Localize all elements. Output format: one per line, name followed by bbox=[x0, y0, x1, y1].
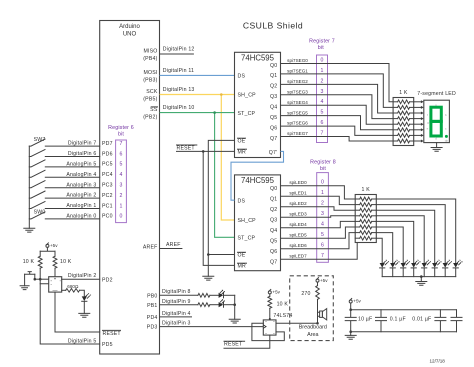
svg-text:Q1: Q1 bbox=[270, 73, 277, 79]
svg-text:PC3: PC3 bbox=[102, 183, 113, 189]
svg-text:AREF: AREF bbox=[143, 244, 158, 250]
wire +5v to R8 bbox=[317, 282, 319, 286]
svg-text:dp: dp bbox=[445, 138, 449, 142]
svg-text:4: 4 bbox=[119, 172, 122, 178]
svg-text:1: 1 bbox=[119, 203, 122, 209]
junction node A resistor bbox=[39, 278, 42, 281]
wire U2 OE to U3 OE and ground bbox=[208, 140, 234, 276]
svg-text:7: 7 bbox=[321, 131, 324, 137]
svg-text:PC5: PC5 bbox=[102, 162, 113, 168]
wire LED4 cathode to rail bbox=[423, 268, 425, 277]
capacitor C3 0.01uF bbox=[435, 310, 446, 332]
RP2 resistor row 7 bbox=[355, 237, 360, 239]
flip-flop U5 74LS74 body bbox=[263, 320, 276, 335]
svg-text:ST_CP: ST_CP bbox=[238, 111, 256, 117]
RP1 resistor row 4 bbox=[393, 123, 398, 125]
wire node A to U6 pin 2 bbox=[40, 279, 49, 284]
ground switch bank bbox=[24, 228, 35, 232]
svg-text:7: 7 bbox=[321, 253, 324, 259]
svg-text:0: 0 bbox=[321, 180, 324, 186]
wire RP2 row 5 to LED2 bbox=[376, 227, 403, 263]
resistor R5 10K (right) bbox=[54, 251, 56, 256]
junction OE net bbox=[207, 253, 210, 256]
svg-text:DigitalPin 11: DigitalPin 11 bbox=[163, 68, 194, 74]
wire LED common rail bbox=[382, 276, 456, 278]
switch SW5 blade bbox=[29, 160, 45, 167]
svg-text:spiLED1: spiLED1 bbox=[289, 191, 307, 196]
svg-text:Q5: Q5 bbox=[270, 115, 277, 121]
wire spi7SEG6 U2 Q6 to RP1 bbox=[281, 126, 394, 135]
capacitor C4 bbox=[451, 310, 462, 332]
wire RESET branch to U3 MR bbox=[203, 151, 234, 265]
wire U5 Qbar to D feedback loop bbox=[252, 323, 284, 340]
svg-text:10 K: 10 K bbox=[277, 301, 289, 307]
wire spi7SEG0 U2 Q0 to RP1 bbox=[281, 64, 394, 102]
resistor pack RP1 1K body bbox=[393, 98, 414, 146]
svg-text:DigitalPin 2: DigitalPin 2 bbox=[68, 273, 97, 279]
wire spiLED1 U3 Q1 to RP2 bbox=[281, 196, 356, 204]
svg-text:SH_CP: SH_CP bbox=[238, 93, 257, 99]
ground decoupling bbox=[345, 335, 356, 339]
wire LED7 cathode to rail bbox=[455, 268, 457, 277]
capacitor C1 10uF bbox=[345, 310, 356, 332]
svg-text:6: 6 bbox=[321, 120, 324, 126]
wire DigitalPin 3 PD3 to U5 clock bbox=[160, 326, 264, 328]
junction ground rail bbox=[349, 330, 352, 333]
wire DigitalPin 7 to switch bbox=[45, 145, 99, 147]
RP2 resistor row 5 bbox=[355, 226, 360, 228]
wire LED5 cathode to rail bbox=[434, 268, 436, 277]
svg-text:Breadboard: Breadboard bbox=[299, 325, 327, 331]
power +5v (pull-ups) bbox=[46, 244, 49, 247]
svg-text:spi7SEG7: spi7SEG7 bbox=[287, 131, 308, 136]
svg-text:PD2: PD2 bbox=[102, 277, 113, 283]
svg-text:bit: bit bbox=[118, 132, 124, 138]
wire RP1 row 3 to 7-seg pin bbox=[414, 118, 421, 120]
svg-text:Q7: Q7 bbox=[270, 136, 277, 142]
wire RP2 row 7 to LED0 bbox=[376, 238, 382, 263]
wire RP1 row 2 to 7-seg pin bbox=[414, 112, 421, 114]
svg-text:Q7: Q7 bbox=[270, 260, 277, 266]
svg-text:PD7: PD7 bbox=[102, 141, 113, 147]
svg-text:Q4: Q4 bbox=[270, 228, 277, 234]
svg-text:PC2: PC2 bbox=[102, 193, 113, 199]
svg-text:bit: bit bbox=[318, 45, 324, 51]
svg-text:(PB5): (PB5) bbox=[143, 97, 157, 103]
shift register U2 74HC595 body bbox=[235, 52, 281, 157]
svg-text:PC1: PC1 bbox=[102, 203, 113, 209]
svg-text:Q3: Q3 bbox=[270, 94, 277, 100]
wire DigitalPin 11 (blue) MOSI to U2 DS bbox=[160, 74, 235, 76]
wire rail to ground bbox=[350, 332, 352, 336]
wire RP1 row 0 to 7-seg pin bbox=[414, 101, 421, 103]
wire spiLED7 U3 Q7 to RP2 bbox=[281, 243, 358, 260]
svg-text:MR: MR bbox=[238, 150, 247, 156]
svg-text:Q6: Q6 bbox=[270, 249, 277, 255]
wire U6 pin to resistor R6 bbox=[62, 289, 66, 291]
wire rail to ground bbox=[420, 277, 422, 282]
svg-text:spi7SEG1: spi7SEG1 bbox=[287, 69, 308, 74]
svg-text:UNO: UNO bbox=[123, 32, 137, 38]
wire 7-seg common to ground bbox=[436, 143, 438, 148]
wire RP1 row 7 to 7-seg pin bbox=[414, 140, 421, 142]
junction speaker node bbox=[316, 322, 319, 325]
wire AREF stub bbox=[160, 248, 182, 250]
svg-text:+5v: +5v bbox=[320, 278, 328, 283]
wire AnalogPin 5 to switch bbox=[45, 166, 99, 168]
wire spiLED3 U3 Q3 to RP2 bbox=[281, 216, 356, 217]
wire spi7SEG2 U2 Q2 to RP1 bbox=[281, 84, 394, 113]
svg-text:DS: DS bbox=[238, 198, 246, 204]
RP2 resistor row 0 bbox=[355, 198, 360, 200]
svg-text:Q2: Q2 bbox=[270, 207, 277, 213]
wire AnalogPin 1 to switch bbox=[45, 208, 99, 210]
debounce chip U6 body bbox=[49, 277, 62, 292]
wire R6 to LED11 bbox=[80, 290, 85, 296]
svg-text:10 µF: 10 µF bbox=[358, 316, 372, 322]
svg-text:Q6: Q6 bbox=[270, 125, 277, 131]
svg-text:Area: Area bbox=[307, 332, 318, 338]
svg-text:spi7SEG0: spi7SEG0 bbox=[287, 58, 308, 63]
svg-text:spiLED6: spiLED6 bbox=[289, 243, 307, 248]
resistor R2 (PB0) bbox=[198, 293, 210, 297]
svg-text:DigitalPin 8: DigitalPin 8 bbox=[162, 289, 191, 295]
svg-text:7: 7 bbox=[119, 141, 122, 147]
svg-text:DigitalPin 12: DigitalPin 12 bbox=[163, 46, 195, 52]
svg-text:CSULB Shield: CSULB Shield bbox=[243, 21, 303, 31]
wire spi7SEG7 U2 Q7 to RP1 bbox=[281, 137, 394, 141]
wire spiLED0 U3 Q0 to RP2 bbox=[281, 186, 356, 199]
RP2 resistor row 6 bbox=[355, 232, 360, 234]
RP1 resistor row 5 bbox=[393, 129, 398, 131]
svg-text:(PB3): (PB3) bbox=[143, 78, 157, 84]
switch SW4 blade bbox=[29, 170, 45, 177]
svg-text:SW7: SW7 bbox=[34, 137, 46, 143]
wire LED1 cathode to rail bbox=[392, 268, 394, 277]
register 6 box bbox=[116, 140, 127, 223]
wire RP1 row 6 to 7-seg pin bbox=[414, 134, 421, 136]
svg-text:PC0: PC0 bbox=[102, 214, 113, 220]
svg-text:spi7SEG6: spi7SEG6 bbox=[287, 121, 308, 126]
wire U6 output DigitalPin 2 to PD2 bbox=[62, 278, 100, 280]
svg-text:spi7SEG3: spi7SEG3 bbox=[287, 89, 308, 94]
7-segment digit segments bbox=[431, 107, 441, 121]
svg-text:Q0: Q0 bbox=[270, 63, 277, 69]
svg-text:PD5: PD5 bbox=[102, 342, 113, 348]
svg-text:1 K: 1 K bbox=[399, 90, 408, 96]
svg-text:0.01 µF: 0.01 µF bbox=[412, 316, 431, 322]
LED LED4 bbox=[422, 263, 427, 268]
junction +5v rail bbox=[349, 308, 352, 311]
svg-text:RESET: RESET bbox=[103, 331, 122, 337]
wire RP2 row 6 to LED1 bbox=[376, 233, 392, 263]
LED LED2 bbox=[401, 263, 406, 268]
breadboard area dashed box bbox=[290, 276, 334, 341]
svg-text:Q1: Q1 bbox=[270, 197, 277, 203]
wire cap bottom rail bbox=[351, 331, 457, 333]
svg-text:PB0: PB0 bbox=[147, 293, 157, 299]
switch SW2 blade bbox=[29, 191, 45, 198]
svg-text:PC4: PC4 bbox=[102, 172, 113, 178]
Arduino UNO U1 body bbox=[100, 21, 160, 355]
wire spi7SEG1 U2 Q1 to RP1 bbox=[281, 74, 394, 107]
wire RP1 row 4 to 7-seg pin bbox=[414, 123, 421, 125]
capacitor C2 0.1uF bbox=[376, 310, 387, 332]
svg-text:10 K: 10 K bbox=[60, 259, 72, 265]
svg-text:DigitalPin 5: DigitalPin 5 bbox=[68, 339, 97, 345]
svg-text:2: 2 bbox=[321, 78, 324, 84]
wire AnalogPin 2 to switch bbox=[45, 197, 99, 199]
wire RP1 row 1 to 7-seg pin bbox=[414, 106, 421, 108]
junction U5 preset pin bbox=[269, 318, 271, 320]
LED LED7 bbox=[453, 263, 458, 268]
resistor R7 10K bbox=[268, 296, 272, 308]
wire LED11 to ground bbox=[83, 301, 85, 313]
wire LED3 cathode to rail bbox=[413, 268, 415, 277]
ground pushbutton bbox=[20, 286, 29, 290]
RP1 resistor row 0 bbox=[393, 101, 398, 103]
power +5v (decoupling) bbox=[349, 300, 352, 303]
wire RP2 row 1 to LED6 bbox=[376, 205, 445, 263]
resistor R6 680 bbox=[66, 289, 80, 293]
shift register U3 74HC595 body bbox=[235, 175, 281, 271]
wire U6 bottom to RESET pin bbox=[55, 292, 100, 332]
U5 clock input mark bbox=[263, 325, 266, 328]
svg-text:74HC595: 74HC595 bbox=[241, 176, 275, 185]
wire PB1 to resistor bbox=[160, 304, 198, 306]
LED LED1 bbox=[390, 263, 395, 268]
junction PB1 node bbox=[233, 303, 236, 306]
wire RP2 row 0 to LED7 bbox=[376, 199, 455, 263]
svg-text:DigitalPin 9: DigitalPin 9 bbox=[162, 299, 191, 305]
svg-text:680Ω: 680Ω bbox=[67, 284, 79, 289]
RP2 resistor row 3 bbox=[355, 215, 360, 217]
LED LED5 bbox=[432, 263, 437, 268]
wire U5 Q output to breadboard bbox=[276, 322, 318, 324]
svg-text:SW0: SW0 bbox=[34, 210, 46, 216]
wire U2 Q7' to U3 DS (blue) bbox=[231, 151, 284, 200]
RP1 resistor row 1 bbox=[393, 106, 398, 108]
wire spiLED6 U3 Q6 to RP2 bbox=[281, 233, 356, 249]
junction node A switch bbox=[34, 278, 37, 281]
power +5v (breadboard) bbox=[316, 279, 319, 282]
wire PB0 to resistor bbox=[160, 294, 198, 296]
wire DigitalPin 10 (green) branch to U3 ST_CP bbox=[215, 113, 235, 238]
svg-text:6: 6 bbox=[321, 243, 324, 249]
LED LED0 bbox=[380, 263, 385, 268]
wire spi7SEG4 U2 Q4 to RP1 bbox=[281, 105, 394, 124]
wire RP1 row 5 to 7-seg pin bbox=[414, 129, 421, 131]
svg-text:SS: SS bbox=[150, 107, 158, 113]
svg-text:(PB4): (PB4) bbox=[143, 56, 157, 62]
junction RESET at U2 MR bbox=[202, 150, 205, 153]
svg-text:spi7SEG4: spi7SEG4 bbox=[287, 100, 308, 105]
ground PB LEDs bbox=[229, 319, 240, 323]
svg-text:4: 4 bbox=[321, 99, 324, 105]
wire spiLED5 U3 Q5 to RP2 bbox=[281, 227, 356, 238]
switch SW3 blade bbox=[29, 181, 45, 188]
svg-text:spiLED7: spiLED7 bbox=[289, 254, 307, 259]
wire RP2 row 2 to LED5 bbox=[376, 210, 434, 263]
svg-text:MISO: MISO bbox=[143, 49, 157, 55]
switch SW1 blade bbox=[29, 202, 45, 209]
wire DigitalPin 13 (yellow) branch to U3 SH_CP bbox=[221, 95, 234, 221]
svg-text:Q0: Q0 bbox=[270, 186, 277, 192]
LED LED11 bbox=[82, 296, 87, 301]
svg-text:Q4: Q4 bbox=[270, 105, 277, 111]
svg-text:2: 2 bbox=[119, 193, 122, 199]
svg-text:3: 3 bbox=[321, 211, 324, 217]
svg-text:5: 5 bbox=[321, 232, 324, 238]
wire switch common bus bbox=[28, 146, 30, 228]
svg-text:6: 6 bbox=[119, 151, 122, 157]
switch SW6 blade bbox=[29, 150, 45, 157]
wire PB0 branch down to PB1 node bbox=[234, 295, 236, 304]
svg-text:MOSI: MOSI bbox=[143, 70, 157, 76]
svg-text:PD4: PD4 bbox=[147, 315, 158, 321]
svg-text:spi7SEG5: spi7SEG5 bbox=[287, 110, 308, 115]
register 7 box bbox=[317, 55, 328, 143]
svg-text:spiLED5: spiLED5 bbox=[289, 233, 307, 238]
svg-text:DS: DS bbox=[238, 74, 246, 80]
7-segment LED U4 body bbox=[424, 100, 450, 142]
RP1 resistor row 6 bbox=[393, 134, 398, 136]
svg-text:0: 0 bbox=[321, 58, 324, 64]
wire LED10 cathode bbox=[224, 304, 235, 306]
wire RP2 row 3 to LED4 bbox=[376, 216, 424, 263]
RP2 resistor row 1 bbox=[355, 204, 360, 206]
switch SW7 blade bbox=[29, 139, 45, 146]
svg-text:+5v: +5v bbox=[353, 299, 361, 304]
svg-text:DigitalPin 10: DigitalPin 10 bbox=[163, 105, 195, 111]
register 8 box bbox=[317, 173, 329, 263]
junction DigitalPin 10 bbox=[213, 111, 216, 114]
resistor R3 (PB1) bbox=[198, 303, 210, 307]
RP2 resistor row 2 bbox=[355, 209, 360, 211]
svg-text:spiLED3: spiLED3 bbox=[289, 212, 307, 217]
svg-text:DigitalPin 13: DigitalPin 13 bbox=[163, 87, 195, 93]
svg-text:0: 0 bbox=[119, 214, 122, 220]
svg-text:DigitalPin 4: DigitalPin 4 bbox=[162, 311, 191, 317]
junction DigitalPin 13 bbox=[220, 93, 223, 96]
svg-text:PD6: PD6 bbox=[102, 151, 113, 157]
wire DigitalPin 12 stub bbox=[160, 53, 194, 55]
svg-text:DigitalPin 3: DigitalPin 3 bbox=[162, 321, 191, 327]
svg-text:Arduino: Arduino bbox=[119, 24, 140, 30]
svg-text:spi7SEG2: spi7SEG2 bbox=[287, 79, 308, 84]
switch SW0 blade bbox=[29, 212, 45, 219]
ground 7-segment bbox=[431, 148, 442, 152]
wire node A to PD5 bbox=[40, 284, 99, 344]
svg-text:5: 5 bbox=[119, 162, 122, 168]
svg-text:+5v: +5v bbox=[50, 243, 58, 248]
svg-text:SCK: SCK bbox=[146, 89, 158, 95]
LED LED10 bbox=[219, 302, 224, 307]
svg-text:spiLED0: spiLED0 bbox=[289, 180, 307, 185]
svg-text:2: 2 bbox=[321, 201, 324, 207]
svg-text:OE: OE bbox=[238, 139, 246, 145]
svg-text:1: 1 bbox=[321, 190, 324, 196]
svg-text:MR: MR bbox=[238, 264, 247, 270]
wire RESET to U5 clear bbox=[224, 335, 270, 348]
svg-text:Q7': Q7' bbox=[269, 150, 278, 156]
svg-text:3: 3 bbox=[119, 183, 122, 189]
svg-text:Register 7: Register 7 bbox=[309, 38, 335, 44]
svg-text:+5v: +5v bbox=[272, 290, 280, 295]
svg-text:1 K: 1 K bbox=[362, 187, 371, 193]
wire AnalogPin 4 to switch bbox=[45, 176, 99, 178]
svg-text:5: 5 bbox=[321, 110, 324, 116]
RP2 resistor row 4 bbox=[355, 220, 360, 222]
7-segment dp dot bbox=[445, 135, 448, 138]
wire +5v to resistor rail bbox=[40, 247, 55, 251]
svg-text:PD3: PD3 bbox=[147, 325, 158, 331]
wire DigitalPin 4 stub bbox=[160, 316, 192, 318]
pushbutton SW8 bbox=[25, 272, 35, 275]
resistor R4 10K (left) bbox=[39, 251, 41, 256]
svg-text:7-segment LED: 7-segment LED bbox=[417, 91, 456, 97]
wire DigitalPin 10 (green) SS to U2 ST_CP bbox=[160, 112, 235, 114]
wire LED2 cathode to rail bbox=[402, 268, 404, 277]
wire RP2 row 4 to LED3 bbox=[376, 221, 413, 263]
svg-text:12/7/18: 12/7/18 bbox=[430, 359, 446, 364]
power +5v (74LS74 preset) bbox=[268, 291, 271, 294]
wire DigitalPin 6 to switch bbox=[45, 156, 99, 158]
svg-text:RESET: RESET bbox=[177, 145, 196, 151]
wire pushbutton node A bbox=[35, 278, 49, 280]
svg-text:Register 6: Register 6 bbox=[108, 125, 134, 131]
ground LED11 bbox=[79, 313, 90, 317]
wire R8 to speaker node bbox=[317, 299, 319, 323]
svg-text:Q5: Q5 bbox=[270, 239, 277, 245]
svg-text:Q2: Q2 bbox=[270, 84, 277, 90]
svg-text:Register 8: Register 8 bbox=[310, 159, 336, 165]
wire spiLED4 U3 Q4 to RP2 bbox=[281, 221, 356, 227]
svg-text:1: 1 bbox=[321, 68, 324, 74]
resistor R8 270 bbox=[316, 286, 320, 300]
wire LED6 cathode to rail bbox=[444, 268, 446, 277]
svg-text:Q3: Q3 bbox=[270, 218, 277, 224]
svg-text:spiLED4: spiLED4 bbox=[289, 222, 307, 227]
RP1 resistor row 7 bbox=[393, 140, 398, 142]
wire +5v to R7 bbox=[269, 294, 271, 296]
svg-text:10 K: 10 K bbox=[23, 259, 35, 265]
wire cap top rail bbox=[351, 309, 457, 311]
svg-text:(PB2): (PB2) bbox=[143, 115, 157, 121]
svg-text:spiLED2: spiLED2 bbox=[289, 201, 307, 206]
wire LED9 cathode bbox=[224, 294, 235, 296]
wire spi7SEG3 U2 Q3 to RP1 bbox=[281, 95, 394, 119]
speaker LS1 bbox=[318, 312, 320, 316]
svg-text:74HC595: 74HC595 bbox=[241, 53, 275, 62]
wire branch to U3 OE bbox=[208, 254, 234, 256]
LED LED3 bbox=[411, 263, 416, 268]
svg-text:3: 3 bbox=[321, 89, 324, 95]
svg-text:0.1 µF: 0.1 µF bbox=[390, 316, 406, 322]
svg-text:AREF: AREF bbox=[166, 242, 181, 248]
svg-text:OE: OE bbox=[238, 253, 246, 259]
RP1 resistor row 2 bbox=[393, 112, 398, 114]
wire DigitalPin 13 (yellow) SCK to U2 SH_CP bbox=[160, 94, 235, 96]
svg-text:4: 4 bbox=[321, 222, 324, 228]
svg-text:ST_CP: ST_CP bbox=[238, 236, 256, 242]
wire LED0 cathode to rail bbox=[381, 268, 383, 277]
wire spi7SEG5 U2 Q5 to RP1 bbox=[281, 116, 394, 130]
LED LED9 bbox=[219, 293, 224, 298]
ground OE net bbox=[203, 276, 214, 280]
svg-text:SH_CP: SH_CP bbox=[238, 218, 257, 224]
wire AnalogPin 0 to switch bbox=[45, 218, 99, 220]
